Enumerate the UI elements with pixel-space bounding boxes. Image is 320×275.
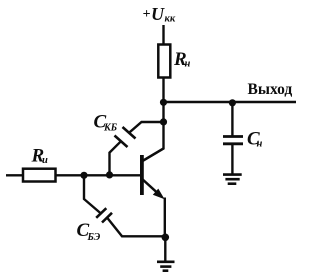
ground (under CH) — [223, 175, 242, 184]
transistor Q1 collector — [142, 148, 164, 161]
wire node C to CKB — [129, 122, 164, 133]
wire CH to ground — [231, 144, 233, 174]
wire CBE to emitter junction — [107, 218, 166, 237]
svg-text:и: и — [42, 155, 48, 166]
wire CKB to base node — [110, 141, 122, 175]
label RH — [173, 49, 191, 70]
resistor RИ — [23, 169, 56, 182]
label CBE — [77, 220, 101, 243]
wire junction to ground — [164, 237, 166, 262]
capacitor CKB — [123, 127, 136, 139]
svg-text:н: н — [185, 58, 191, 69]
wire CBE branch down from node E — [84, 175, 100, 213]
wire RH to transistor collector — [143, 78, 164, 162]
wire node B to CH — [231, 102, 233, 136]
svg-text:кк: кк — [165, 14, 176, 25]
label RИ — [31, 145, 49, 166]
svg-text:U: U — [151, 4, 165, 24]
node F: emitter junction — [162, 234, 170, 242]
wire base — [56, 174, 141, 176]
node E: base-CBE junction — [80, 172, 87, 179]
wire output — [164, 101, 297, 103]
resistor RH — [158, 45, 170, 78]
wire emitter down — [164, 198, 166, 239]
wire supply to RH — [162, 25, 164, 45]
node A: output junction — [160, 99, 167, 106]
capacitor CH — [223, 135, 243, 138]
node C: CKB junction — [160, 118, 167, 125]
svg-text:н: н — [257, 139, 263, 150]
node B: CH junction — [229, 99, 236, 106]
svg-text:КБ: КБ — [103, 122, 118, 133]
label CKB — [94, 111, 118, 133]
svg-text:Выход: Выход — [248, 81, 293, 98]
transistor Q1 base bar — [140, 155, 144, 195]
node D: base-CKB junction — [106, 171, 113, 178]
label Выход — [248, 81, 293, 98]
input lead — [6, 174, 23, 176]
ground (emitter) — [157, 262, 175, 271]
capacitor CBE — [96, 208, 106, 218]
svg-text:+: + — [143, 7, 151, 22]
supply label +Uкк — [143, 4, 176, 25]
svg-text:БЭ: БЭ — [87, 232, 101, 243]
transistor Q1 emitter with arrow — [142, 179, 161, 196]
label CH — [247, 128, 263, 149]
